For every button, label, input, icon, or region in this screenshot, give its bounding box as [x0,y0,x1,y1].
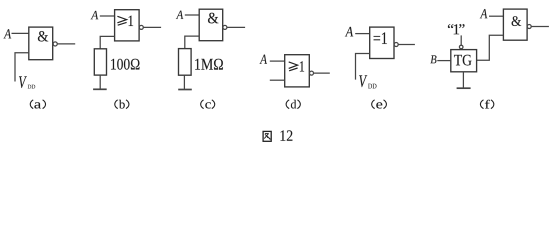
control bubble on top of TG [459,45,463,49]
wire: input A to gate (b) [100,15,115,17]
caption (a) open paren [30,100,33,109]
TG text [454,55,471,66]
label A of (d) [260,55,267,64]
inverter bubble at output of (a) [53,42,57,46]
wire: resistor R2 to ground [183,75,185,89]
gate U-a box (NAND with &) [29,27,53,60]
gate U-c box (NAND with &) [199,9,223,41]
caption (c) letter [205,102,211,108]
wire: output of (b) [144,26,162,28]
wire: second input of (e) from VDD [356,54,370,80]
caption (b) close paren [126,100,129,109]
wire: output of (c) [227,26,245,28]
ground of (c) [178,89,192,91]
wire: TG to ground [462,72,464,88]
inverter bubble at output of (e) [394,43,398,47]
caption (a) close paren [43,100,46,109]
hanzi TU (figure) of caption, drawn as strokes [263,131,271,141]
resistor R2 1Mohm body [179,49,192,76]
wire: second input of (f) from TG output [477,35,504,60]
caption (c) close paren [212,100,215,109]
V of VDD (a) [19,76,27,88]
gate U-e box (XNOR with =1) [370,27,394,58]
ground of (f) [457,87,471,89]
digit 1 of gate (b) [129,16,133,26]
wire: input A to gate (d) [270,60,285,62]
wire: second input of (c) down to resistor R2 [185,36,199,49]
inverter bubble at output of (d) [310,71,314,75]
caption (f) letter [485,100,490,109]
control label "1" of TG [448,24,465,34]
ground of (b) [93,88,107,90]
caption (c) open paren [201,100,204,109]
transmission gate TG box [451,50,477,72]
caption (e) letter [376,102,382,108]
label A of (a) [4,29,12,38]
wire: second input of (b) down to resistor R1 [100,36,114,48]
caption (f) close paren [491,100,494,109]
resistor label 1Mohm [195,59,223,70]
caption (f) open paren [480,100,483,109]
wire: output of (a) [57,43,75,45]
label B of (f) [430,55,436,63]
wire: second input of (a) from VDD [15,53,29,82]
wire: input A to gate (a) [12,32,29,34]
gate symbol & of (c) [208,13,218,24]
caption (d) letter [291,100,296,109]
gate symbol >= of (b) [117,16,126,23]
V of VDD (e) [359,75,367,87]
gate U-b box (NOR with >=1) [115,10,140,41]
label A of (f) [480,9,488,18]
wire: output of (e) [398,44,415,46]
wire: output of (d) [314,72,330,74]
gate symbol & of (a) [38,31,48,41]
wire: output of (f) [531,26,549,28]
caption (e) open paren [372,100,375,109]
wire: input A to gate (f) [489,15,503,17]
wire: input A to gate (e) [355,33,370,35]
gate symbol >= of (d) [289,62,298,69]
wire: input B to TG [437,60,451,62]
inverter bubble at output of (f) [527,25,531,29]
caption (a) letter [34,102,41,108]
label A of (b) [91,11,99,19]
resistor label 100ohm [111,59,139,70]
resistor R1 100ohm body [94,49,106,75]
inverter bubble at output of (c) [223,25,227,29]
wire: control "1" drop to TG [460,35,462,45]
inverter bubble at output of (b) [139,25,143,29]
caption (d) open paren [286,100,289,109]
gate U-d box (NOR with >=1) [285,55,310,87]
caption (e) close paren [384,100,387,109]
gate symbol =1 of (e) [374,32,387,44]
label A of (e) [345,27,353,37]
label A of (c) [176,11,183,19]
digit 1 of gate (d) [300,61,304,71]
gate U-f box (NAND with &) [503,9,527,40]
DD subscript of VDD (a) [28,85,35,89]
wire: open second input stub of (d) [270,79,285,81]
gate symbol & of (f) [512,16,522,26]
DD subscript of VDD (e) [368,84,376,89]
caption number 12 [281,130,293,140]
caption (b) open paren [115,100,118,109]
caption (d) close paren [297,100,300,109]
wire: resistor R1 to ground [99,75,101,89]
wire: input A to gate (c) [185,14,199,16]
caption (b) letter [119,100,125,109]
